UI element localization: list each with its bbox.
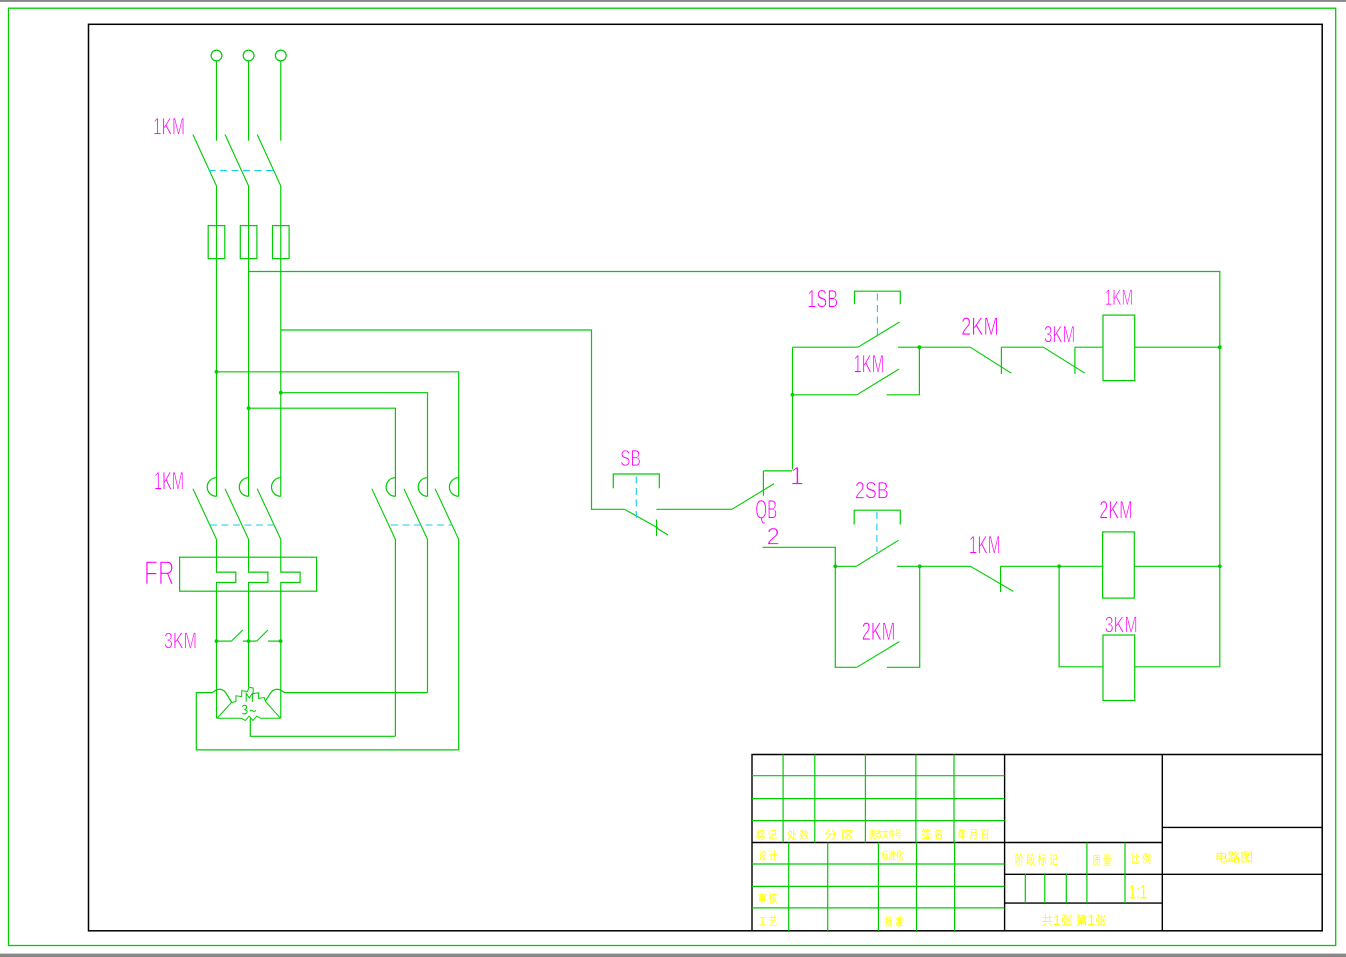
coil 3KM — [1103, 635, 1135, 701]
start button 1SB bracket — [855, 291, 901, 304]
svg-text:3KM: 3KM — [164, 627, 197, 653]
contact 2KM pole1 blade — [372, 489, 396, 540]
svg-text:1:1: 1:1 — [1129, 883, 1147, 904]
junction coil2 right rail — [1218, 564, 1222, 568]
wire 2KM NC to 3KM NC — [1001, 346, 1043, 348]
contact 2KM pole3 blade — [435, 489, 459, 540]
wire 2SB to 1KM NC — [897, 565, 971, 567]
wire bus motor right terminal — [285, 692, 428, 694]
start button 2SB bracket — [854, 510, 900, 524]
fuse FU2 — [240, 226, 257, 259]
svg-text:1KM: 1KM — [153, 114, 185, 141]
wire phase2 vertical — [248, 186, 250, 497]
junction 3KM bridge 3 — [279, 639, 283, 643]
wire rung1 left — [793, 346, 858, 348]
svg-text:比 例: 比 例 — [1131, 852, 1151, 866]
svg-text:批 准: 批 准 — [884, 915, 903, 929]
stop button SB bracket — [613, 474, 659, 488]
latch contact 2KM blade — [857, 642, 900, 668]
selector switch QB blade — [732, 484, 774, 510]
terminal L1 — [211, 50, 222, 61]
wire branch phase2 to 2KM left pole — [249, 408, 396, 496]
motor right lead hop — [265, 689, 284, 701]
wire node 1 riser — [763, 347, 792, 471]
svg-text:2KM: 2KM — [862, 618, 896, 646]
svg-text:分 区: 分 区 — [824, 829, 854, 842]
contact 1KM lower pole3 arc — [272, 478, 281, 497]
3KM bridge wire to dot2 — [243, 640, 257, 642]
wire phase3 vertical — [280, 186, 282, 497]
svg-text:2KM: 2KM — [1099, 497, 1133, 525]
svg-text:1KM: 1KM — [1105, 285, 1134, 310]
terminal L3 — [275, 50, 286, 61]
svg-text:工 艺: 工 艺 — [759, 915, 778, 928]
junction phase3/2KM branch — [279, 391, 283, 395]
title block divider mid-left — [1004, 755, 1006, 931]
3KM bridge contact blade 2 — [257, 630, 268, 641]
contact 1KM lower pole1 blade — [193, 489, 217, 540]
wire 2KM pole2 down — [427, 539, 429, 692]
wire coil 2KM to right rail — [1134, 565, 1220, 567]
1SB actuator dashed — [876, 294, 878, 337]
wire bus motor left terminal — [196, 693, 458, 750]
wire 3KM NC to coil 1KM — [1075, 346, 1103, 348]
title block divider mid-right — [1161, 755, 1163, 931]
svg-text:1KM: 1KM — [154, 468, 184, 496]
svg-text:1KM: 1KM — [969, 532, 1001, 560]
wire pole1 to motor — [216, 641, 218, 718]
svg-text:1: 1 — [790, 463, 804, 491]
svg-text:1KM: 1KM — [854, 351, 885, 379]
top window edge band — [0, 0, 1346, 2]
svg-text:标准化: 标准化 — [881, 849, 903, 863]
latch contact 2KM wire right riser — [887, 566, 920, 667]
motor label 3~ — [242, 705, 247, 714]
interlock 2KM NC blade — [970, 347, 1011, 373]
terminal L2 — [243, 50, 254, 61]
contact 2KM pole2 blade — [404, 489, 428, 540]
svg-text:更改文件号: 更改文件号 — [869, 828, 901, 841]
wire 1SB to 2KM NC — [898, 346, 970, 348]
3KM bridge wire to dot3 — [268, 640, 281, 642]
3KM bridge contact blade 1 — [231, 630, 242, 641]
stage mark small ticks — [1025, 874, 1066, 903]
svg-text:阶 段 标 记: 阶 段 标 记 — [1015, 852, 1058, 867]
wire L1 drop — [216, 61, 218, 141]
motor M1 delta winding left — [217, 687, 249, 718]
svg-text:共1张 第1张: 共1张 第1张 — [1042, 912, 1107, 929]
contact 1KM lower pole2 blade — [225, 489, 249, 540]
wire pole3 through FR heater jog — [281, 539, 300, 641]
stop button SB blade — [625, 509, 658, 528]
stop button SB contact bar — [656, 520, 658, 537]
coil 1KM — [1103, 315, 1135, 381]
start button 1SB blade — [858, 322, 900, 347]
selector QB throw-1 contact bar — [762, 471, 764, 496]
wire pole2 through FR heater jog — [249, 539, 268, 641]
contact 2KM pole1 arc — [386, 478, 395, 497]
svg-text:处 数: 处 数 — [787, 829, 809, 842]
contact 1KM lower pole3 blade — [257, 489, 281, 540]
motor M1 delta winding bottom — [217, 716, 281, 720]
latch contact 1KM wire right riser — [887, 347, 920, 395]
latch contact 1KM blade — [857, 369, 899, 395]
wire rung2 hinge — [835, 565, 856, 567]
wire SB to QB — [657, 508, 732, 510]
1KM upper linkage dashed — [209, 170, 276, 172]
wire control supply top rail — [249, 272, 1220, 667]
motor left lead hop — [213, 689, 232, 702]
junction coil1 right rail — [1218, 345, 1222, 349]
stage mark columns — [1087, 843, 1125, 904]
interlock 3KM NC bar — [1074, 347, 1076, 374]
wire 2KM pole1 down to motor bottom bus — [394, 539, 396, 736]
wire branch phase3 to 2KM middle pole — [281, 393, 428, 497]
wire pole3 to motor — [280, 641, 282, 718]
wire branch phase1 to 2KM right pole — [217, 372, 459, 497]
junction 3KM bridge 2 — [247, 639, 251, 643]
wire phase1 vertical — [216, 186, 218, 497]
svg-text:3KM: 3KM — [1105, 612, 1138, 638]
motor label tilde — [250, 710, 256, 711]
coil 2KM — [1103, 532, 1135, 598]
svg-text:电路图: 电路图 — [1215, 850, 1253, 865]
fuse FU3 — [273, 226, 290, 259]
motor M1 delta winding right — [249, 687, 281, 718]
interlock 1KM NC blade — [971, 566, 1014, 591]
2KM linkage dashed — [391, 524, 452, 526]
wire pole1 through FR heater jog — [217, 539, 236, 641]
interlock 2KM NC bar — [1000, 347, 1002, 374]
wire feed to coil 3KM — [1059, 566, 1103, 667]
svg-text:质 量: 质 量 — [1092, 854, 1112, 868]
contactor 1KM upper pole 3 blade — [257, 135, 281, 187]
contact 1KM lower pole1 arc — [207, 478, 216, 497]
wire pole2 to motor apex — [248, 641, 250, 687]
wire bus motor bottom terminal — [250, 718, 395, 736]
junction 3KM feed — [1057, 564, 1061, 568]
wire 1KM NC to coil 2KM — [1001, 565, 1103, 567]
junction 2SB latch — [918, 564, 922, 568]
wire node 2 to lower rung — [763, 547, 836, 566]
contact 1KM lower pole2 arc — [239, 478, 248, 497]
junction 1SB latch — [918, 345, 922, 349]
junction node1 latch — [791, 393, 795, 397]
svg-text:审 核: 审 核 — [758, 891, 777, 905]
interlock 3KM NC blade — [1043, 347, 1085, 373]
wire 2KM pole3 down — [458, 539, 460, 750]
title block right row line — [1162, 826, 1322, 828]
contactor 1KM upper pole 2 blade — [225, 135, 249, 187]
thermal overload relay FR box — [180, 557, 317, 591]
title block mid row line2 — [1005, 873, 1323, 875]
motor label M — [246, 693, 252, 701]
stop button SB release tick — [657, 528, 669, 535]
signature table lower columns — [789, 843, 955, 931]
revision table upper columns — [783, 755, 954, 843]
svg-text:标 记: 标 记 — [756, 828, 777, 842]
contact 2KM pole2 arc — [418, 478, 427, 497]
wire L3 drop — [280, 61, 282, 141]
junction rung2 left — [833, 564, 837, 568]
junction phase1/2KM branch — [215, 370, 219, 374]
contactor 1KM upper pole 1 blade — [193, 135, 217, 187]
svg-text:SB: SB — [620, 445, 641, 471]
start button 2SB blade — [856, 540, 898, 566]
wire L2 drop — [248, 61, 250, 141]
wire coil 3KM to right rail — [1135, 666, 1220, 668]
svg-text:设 计: 设 计 — [759, 850, 778, 863]
svg-text:2KM: 2KM — [961, 313, 999, 341]
svg-text:年 月 日: 年 月 日 — [958, 827, 990, 841]
svg-text:QB: QB — [755, 494, 777, 524]
fuse FU1 — [208, 226, 225, 259]
title block mid row line3 — [1005, 902, 1163, 904]
wire coil 1KM to right rail — [1135, 346, 1220, 348]
svg-text:2: 2 — [767, 523, 780, 550]
2SB actuator dashed — [876, 512, 878, 552]
3KM bridge wire dot1 to hinge — [217, 640, 232, 642]
wire control branch to SB — [281, 330, 625, 509]
SB actuator dashed — [635, 477, 637, 519]
title block — [752, 755, 1322, 931]
junction 3KM bridge 1 — [215, 639, 219, 643]
title block outer — [752, 755, 1322, 931]
svg-text:1SB: 1SB — [807, 286, 838, 314]
svg-text:2SB: 2SB — [855, 478, 889, 505]
contact 2KM pole3 arc — [449, 478, 458, 497]
interlock 1KM NC bar — [1000, 566, 1002, 592]
1KM lower linkage dashed — [210, 524, 274, 526]
latch 2KM branch left drop — [835, 566, 857, 667]
svg-text:签 名: 签 名 — [922, 827, 944, 841]
title block black row line — [752, 842, 1162, 844]
junction phase2/2KM branch — [247, 406, 251, 410]
bottom window edge band — [0, 954, 1346, 957]
latch contact 1KM wire left — [793, 394, 857, 396]
revision table row lines — [752, 776, 1005, 908]
svg-text:FR: FR — [144, 555, 175, 593]
svg-text:3KM: 3KM — [1044, 322, 1075, 349]
